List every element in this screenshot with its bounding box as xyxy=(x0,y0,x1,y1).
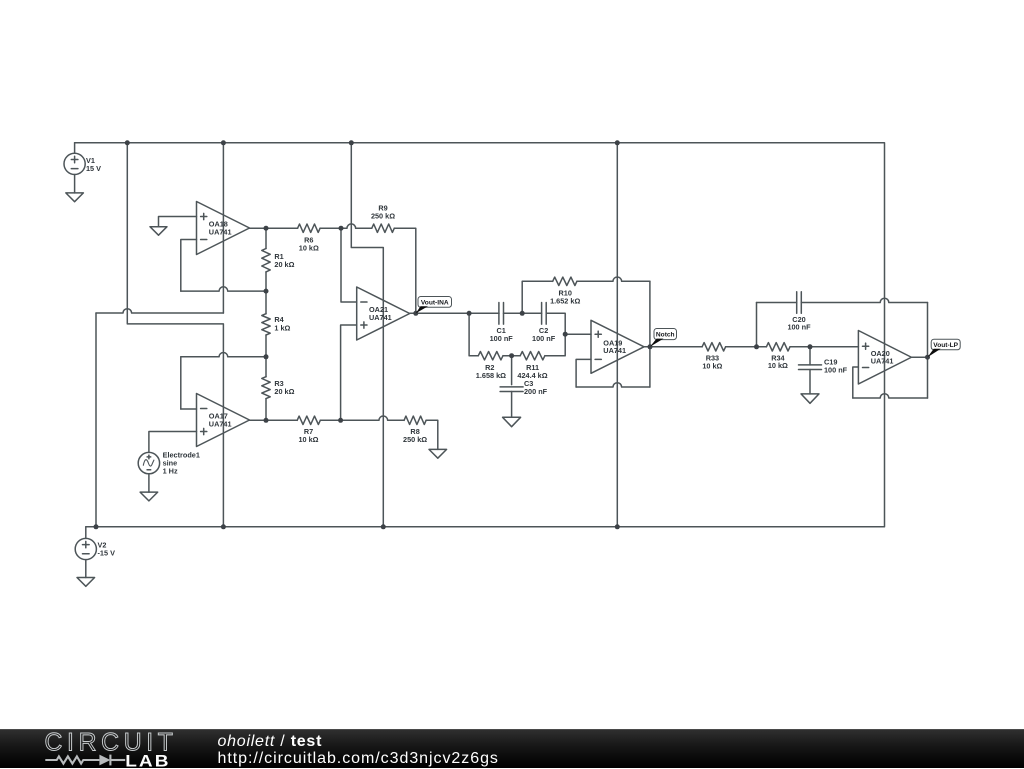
svg-text:1 kΩ: 1 kΩ xyxy=(274,323,290,332)
svg-text:200 nF: 200 nF xyxy=(524,387,548,396)
svg-text:LAB: LAB xyxy=(125,751,170,769)
svg-text:UA741: UA741 xyxy=(209,419,232,428)
svg-text:Notch: Notch xyxy=(656,331,675,338)
svg-text:10 kΩ: 10 kΩ xyxy=(702,361,722,370)
svg-text:100 nF: 100 nF xyxy=(532,334,556,343)
svg-text:UA741: UA741 xyxy=(871,357,894,366)
svg-text:20 kΩ: 20 kΩ xyxy=(274,260,294,269)
svg-text:-15 V: -15 V xyxy=(98,549,116,558)
svg-text:UA741: UA741 xyxy=(603,346,626,355)
svg-text:1.652 kΩ: 1.652 kΩ xyxy=(550,297,580,306)
svg-text:100 nF: 100 nF xyxy=(490,334,514,343)
svg-text:Vout-INA: Vout-INA xyxy=(421,299,449,306)
svg-text:10 kΩ: 10 kΩ xyxy=(768,361,788,370)
svg-text:10 kΩ: 10 kΩ xyxy=(299,244,319,253)
svg-text:UA741: UA741 xyxy=(369,313,392,322)
svg-text:1 Hz: 1 Hz xyxy=(163,466,178,475)
svg-text:10 kΩ: 10 kΩ xyxy=(298,435,318,444)
svg-text:20 kΩ: 20 kΩ xyxy=(274,387,294,396)
svg-text:250 kΩ: 250 kΩ xyxy=(403,435,427,444)
svg-text:100 nF: 100 nF xyxy=(787,323,811,332)
svg-text:UA741: UA741 xyxy=(209,227,232,236)
svg-text:15 V: 15 V xyxy=(86,164,101,173)
svg-text:250 kΩ: 250 kΩ xyxy=(371,211,395,220)
svg-text:100 nF: 100 nF xyxy=(824,365,848,374)
svg-text:Vout-LP: Vout-LP xyxy=(933,342,958,349)
svg-text:1.658 kΩ: 1.658 kΩ xyxy=(476,371,506,380)
